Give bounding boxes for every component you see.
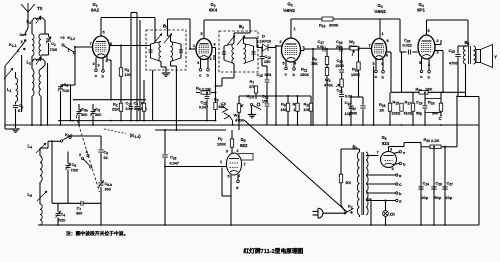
wire y203 xyxy=(52,202,101,204)
pins bottom G1 xyxy=(93,54,112,100)
svg-text:R18: R18 xyxy=(428,100,435,106)
resistor R9 75K xyxy=(311,48,329,66)
svg-text:1M: 1M xyxy=(281,108,286,112)
svg-text:K1-2: K1-2 xyxy=(68,35,76,41)
bottom bus xyxy=(38,224,479,226)
transformer B3 xyxy=(353,145,369,216)
svg-text:C20: C20 xyxy=(404,38,411,44)
svg-text:410Ω: 410Ω xyxy=(404,112,413,116)
wire xyxy=(262,65,267,67)
wire x363 col xyxy=(0,0,1,1)
svg-text:7: 7 xyxy=(244,163,246,167)
tap C xyxy=(439,111,442,121)
wire B3 primary top xyxy=(341,149,360,174)
capacitor C22 2200 xyxy=(336,58,345,79)
svg-text:1: 1 xyxy=(220,160,222,164)
svg-text:470K: 470K xyxy=(324,84,333,88)
svg-text:7/10: 7/10 xyxy=(62,89,69,93)
capacitor C16 0.047 xyxy=(162,130,179,225)
resistor R7 100K xyxy=(217,130,234,154)
svg-text:2K: 2K xyxy=(380,109,385,113)
wire G1 plate rail xyxy=(101,17,155,19)
wire B2 pri top xyxy=(234,33,250,44)
capacitor C26 50u xyxy=(431,181,442,201)
ground xyxy=(162,73,170,76)
tube G3 half 6N2 xyxy=(282,2,301,63)
svg-text:7/20: 7/20 xyxy=(50,47,59,52)
pin 1 top xyxy=(291,19,296,38)
ground xyxy=(248,106,256,118)
vertical pair mid xyxy=(131,13,137,100)
wire x327 down xyxy=(326,76,328,126)
wire det to W1 xyxy=(239,95,311,97)
svg-text:R9: R9 xyxy=(312,56,317,62)
pot W2 470K xyxy=(349,39,373,56)
svg-text:W2: W2 xyxy=(349,39,355,45)
svg-text:R17: R17 xyxy=(405,100,412,106)
capacitor C22 1000 xyxy=(349,97,366,125)
svg-text:470K: 470K xyxy=(235,119,244,123)
rectifier pins xyxy=(377,143,407,172)
capacitor C21 0.01 xyxy=(337,89,353,126)
trimmer C2 xyxy=(45,34,58,55)
capacitor C19 50u xyxy=(416,92,427,125)
capacitor C25 4700 xyxy=(449,46,466,97)
pin 5 top xyxy=(101,18,105,37)
svg-text:R16: R16 xyxy=(379,102,386,108)
svg-text:360: 360 xyxy=(95,113,101,117)
wire xyxy=(0,0,1,1)
resistor R19 18K xyxy=(416,87,433,95)
svg-text:B4: B4 xyxy=(465,40,470,46)
pin 6 xyxy=(212,43,216,93)
main mid bus y125 xyxy=(5,124,479,126)
svg-text:C18: C18 xyxy=(336,39,343,45)
switch K2 xyxy=(344,204,354,215)
resistor R18 300 xyxy=(425,92,443,115)
svg-text:C27: C27 xyxy=(447,181,454,187)
svg-text:7: 7 xyxy=(90,42,92,46)
svg-text:5: 5 xyxy=(103,31,105,35)
svg-text:3: 3 xyxy=(390,148,392,152)
capacitor C19 0.01 xyxy=(126,100,134,121)
wire T2 right top xyxy=(41,65,45,69)
plug xyxy=(313,208,345,218)
svg-text:5: 5 xyxy=(201,32,203,36)
svg-text:注：图中波段开关位于中波。: 注：图中波段开关位于中波。 xyxy=(66,230,128,237)
svg-text:7: 7 xyxy=(377,151,379,155)
svg-text:R11: R11 xyxy=(301,67,307,73)
svg-text:R7: R7 xyxy=(218,136,223,142)
capacitor C17 0.01 xyxy=(317,39,325,52)
jack CX xyxy=(221,101,234,126)
svg-text:5: 5 xyxy=(419,61,421,65)
svg-text:2: 2 xyxy=(280,40,282,44)
heater stub o xyxy=(95,69,98,78)
wire right edge xyxy=(478,125,480,225)
wire filter v3 xyxy=(444,146,446,225)
coil L1 xyxy=(4,68,18,102)
IF transformer B2 xyxy=(219,24,258,72)
svg-text:R15: R15 xyxy=(393,100,400,106)
resistor R16 2K xyxy=(379,92,392,125)
svg-text:62: 62 xyxy=(104,156,108,160)
svg-text:C16: C16 xyxy=(170,155,177,161)
svg-text:0.047: 0.047 xyxy=(170,162,180,166)
svg-text:75K: 75K xyxy=(311,62,318,66)
pin 5 top xyxy=(427,20,430,35)
svg-text:5: 5 xyxy=(228,175,230,179)
heater stub b xyxy=(293,68,296,77)
resistor R2 22K xyxy=(112,100,123,121)
vertical x313 xyxy=(312,48,314,125)
pins bottom G3 xyxy=(283,61,298,67)
heater stub b xyxy=(428,70,431,79)
svg-text:8: 8 xyxy=(387,39,389,43)
resistor R14 300K xyxy=(319,17,339,28)
capacitor C6 62 xyxy=(99,150,109,171)
capacitor C27 20u xyxy=(442,181,453,201)
svg-text:K2: K2 xyxy=(348,204,353,210)
ground xyxy=(11,129,19,132)
pin 7 xyxy=(74,42,93,48)
pin 3 xyxy=(301,46,305,51)
capacitor C14 10u xyxy=(345,96,354,125)
svg-text:3: 3 xyxy=(437,51,439,55)
magic eye cathode loop xyxy=(222,168,231,226)
svg-text:C: C xyxy=(399,182,402,187)
pins bottom G4 xyxy=(373,59,385,70)
resistor R10 10K xyxy=(304,96,313,125)
wire osc top xyxy=(0,0,1,1)
svg-text:W1: W1 xyxy=(234,113,240,119)
fuse BX xyxy=(339,174,351,211)
svg-text:20μ: 20μ xyxy=(446,196,453,200)
wire B3 sec bottom xyxy=(0,0,1,1)
svg-text:红灯牌711-2型电原理图: 红灯牌711-2型电原理图 xyxy=(244,247,304,255)
svg-text:G6: G6 xyxy=(381,135,386,141)
wire K2 to B3 xyxy=(0,0,1,1)
pin 2 xyxy=(434,39,441,45)
switch K1-3 xyxy=(60,133,72,142)
wire B2 pri bottom xyxy=(222,64,234,79)
wire x373 xyxy=(373,66,375,125)
pins bottom G2 xyxy=(197,55,214,68)
heater stub b xyxy=(382,70,385,79)
wire G2 plate rail xyxy=(204,20,250,33)
wire rail drop to B1 xyxy=(154,18,156,43)
svg-text:L1: L1 xyxy=(7,87,12,93)
svg-text:2: 2 xyxy=(437,39,439,43)
svg-text:1000: 1000 xyxy=(349,112,357,116)
switch K1-5 xyxy=(247,95,262,110)
svg-text:50μ: 50μ xyxy=(435,196,442,200)
transformer taps xyxy=(366,156,402,204)
svg-text:ZD: ZD xyxy=(390,212,395,217)
svg-text:+3: +3 xyxy=(60,35,65,40)
svg-text:C26: C26 xyxy=(436,181,443,187)
pins bottom G5 xyxy=(419,58,431,70)
wire sec jog xyxy=(366,199,371,225)
note text xyxy=(66,230,128,237)
wire diode in xyxy=(0,0,1,1)
pot W3 470K xyxy=(324,77,343,94)
svg-text:6Z4: 6Z4 xyxy=(382,141,390,146)
wire filter v1 xyxy=(420,147,422,225)
tube G2 6K4 xyxy=(196,2,218,60)
svg-text:1: 1 xyxy=(68,49,70,53)
svg-text:C24: C24 xyxy=(423,181,430,187)
gang capacitor C8-a 360 xyxy=(76,104,101,125)
svg-text:3a: 3a xyxy=(20,32,25,37)
wire B2 left drop xyxy=(215,78,223,87)
svg-text:6P1: 6P1 xyxy=(417,8,425,13)
capacitor C18 200 xyxy=(336,39,343,52)
svg-text:C22: C22 xyxy=(337,58,344,64)
svg-text:W3: W3 xyxy=(325,77,331,83)
svg-text:5: 5 xyxy=(373,62,375,66)
wire K1-3 xyxy=(48,136,101,149)
svg-text:7/20: 7/20 xyxy=(58,219,65,223)
svg-text:5: 5 xyxy=(428,29,430,33)
svg-text:100K: 100K xyxy=(217,143,226,147)
tube G1 6A2 xyxy=(91,2,110,58)
svg-text:7/30: 7/30 xyxy=(71,169,78,173)
wire grid row xyxy=(304,48,350,50)
capacitor C13 150 xyxy=(262,92,269,125)
rail y92 xyxy=(391,91,466,93)
transformer T1 xyxy=(32,34,45,56)
wire speaker xyxy=(0,0,1,1)
capacitor C10 150 xyxy=(260,47,272,67)
svg-text:360: 360 xyxy=(105,188,111,192)
rail AGC y99 xyxy=(73,99,146,101)
capacitor C20 0.022 xyxy=(400,38,418,55)
resistor R20 2.2K xyxy=(421,137,457,149)
svg-text:D: D xyxy=(262,34,265,39)
svg-text:G3: G3 xyxy=(287,2,292,8)
svg-text:22K: 22K xyxy=(112,108,119,112)
wire xyxy=(41,55,49,60)
svg-text:C3: C3 xyxy=(64,82,69,88)
svg-text:C17: C17 xyxy=(318,39,325,45)
heater stub b xyxy=(102,70,105,79)
switch K1-2 xyxy=(60,35,75,54)
svg-text:3: 3 xyxy=(98,64,100,68)
resistor R7 47K xyxy=(249,80,258,93)
pin 6 xyxy=(110,42,151,46)
switch K1-4b xyxy=(79,150,92,168)
svg-text:L4: L4 xyxy=(28,144,33,150)
svg-text:2200: 2200 xyxy=(336,64,344,68)
svg-text:6K4: 6K4 xyxy=(209,8,218,13)
svg-text:B2: B2 xyxy=(239,24,244,30)
svg-text:G5: G5 xyxy=(241,137,246,143)
svg-text:C5: C5 xyxy=(72,162,77,168)
svg-text:L2: L2 xyxy=(27,60,32,66)
resistor R6 1M xyxy=(281,96,290,125)
coil L5 adj xyxy=(28,191,48,201)
svg-text:C19: C19 xyxy=(416,100,423,106)
tube G6 magic eye 6E2 xyxy=(226,137,248,175)
svg-text:C6: C6 xyxy=(104,150,109,156)
resistor R8 68K xyxy=(214,93,226,121)
svg-text:R6: R6 xyxy=(281,102,286,108)
tube G4 half 6N2 xyxy=(372,3,387,60)
resistor R12 100K xyxy=(351,47,360,97)
svg-text:6E2: 6E2 xyxy=(240,143,248,148)
resistor R7b 1K xyxy=(293,96,300,125)
svg-text:½6N2: ½6N2 xyxy=(283,8,295,13)
wire xyxy=(32,56,45,69)
wire y97 jog xyxy=(351,96,359,98)
wire xyxy=(21,55,23,112)
wire B1 left drop xyxy=(152,70,154,121)
svg-text:R14: R14 xyxy=(319,23,326,29)
link wire W1 to K2 xyxy=(244,120,347,212)
magic eye target loop xyxy=(238,154,253,161)
switch K1-1 xyxy=(9,32,26,53)
svg-text:C2: C2 xyxy=(51,41,56,47)
svg-text:BX: BX xyxy=(346,180,352,185)
coil L4 adj xyxy=(28,143,47,153)
wire K1-5 stub xyxy=(255,93,257,99)
diode D 2AP16 xyxy=(257,34,276,126)
lamp ZD xyxy=(383,200,395,226)
wire B3 primary bottom xyxy=(359,215,361,217)
svg-text:CX: CX xyxy=(221,101,227,106)
resistor R15 230 xyxy=(392,100,404,116)
tube G7 rectifier 6Z4 xyxy=(381,135,397,168)
svg-text:0.01: 0.01 xyxy=(265,73,272,77)
trimmer C5 7/30 xyxy=(65,152,77,204)
svg-text:6: 6 xyxy=(386,54,388,58)
wire K4b xyxy=(0,0,1,1)
wire B+ to R20 xyxy=(404,143,421,147)
svg-text:67: 67 xyxy=(18,108,23,113)
svg-text:G3: G3 xyxy=(377,3,382,9)
label K1-4 dashed pointer xyxy=(104,129,143,140)
svg-text:K1-1: K1-1 xyxy=(9,42,17,48)
pin 7 grid xyxy=(369,44,373,48)
svg-text:TX: TX xyxy=(37,6,43,11)
pin 5 top xyxy=(201,20,205,39)
svg-text:6: 6 xyxy=(214,43,216,47)
title text xyxy=(244,247,304,255)
wire K1-2 down xyxy=(70,47,75,122)
resistor R17 410 xyxy=(404,92,415,125)
svg-text:C25: C25 xyxy=(449,48,456,54)
svg-text:2: 2 xyxy=(237,149,239,153)
pin labels magic eye xyxy=(220,149,246,179)
stub d xyxy=(236,175,239,191)
capacitor C7 360 xyxy=(76,201,83,216)
svg-text:L3: L3 xyxy=(27,19,32,25)
svg-text:Y: Y xyxy=(494,55,497,60)
osc coil lower xyxy=(40,182,42,225)
wire eye left xyxy=(164,166,227,168)
wire B+ right column xyxy=(456,96,458,147)
plate rail G3-G4 xyxy=(291,18,400,20)
capacitor C1 67 xyxy=(13,102,23,128)
wire xyxy=(32,20,45,34)
speaker Y xyxy=(476,45,497,68)
svg-text:150: 150 xyxy=(264,60,270,64)
resistor R5 100 xyxy=(119,45,132,101)
svg-text:360: 360 xyxy=(81,113,87,117)
wire B2 sec top xyxy=(244,38,258,48)
wire y151 xyxy=(0,0,1,1)
wire x47 xyxy=(47,63,49,126)
pot W1 470K xyxy=(234,96,245,130)
wire G5 plate rail xyxy=(427,20,469,46)
wire B1 pri bottom xyxy=(161,62,166,73)
vertical x341 xyxy=(341,48,343,69)
svg-text:9: 9 xyxy=(226,150,228,154)
wire osc right column xyxy=(51,141,53,203)
pin 3 screen xyxy=(435,51,444,93)
osc coil upper xyxy=(40,148,48,182)
transformer B4 xyxy=(464,40,476,97)
gang capacitor C8-b 360 xyxy=(98,170,112,225)
svg-text:2AP16: 2AP16 xyxy=(260,40,272,44)
wire xyxy=(15,96,43,126)
wire filter v2 xyxy=(433,146,435,225)
heater stub o xyxy=(199,69,202,78)
antenna xyxy=(21,3,43,33)
coil L3 xyxy=(27,16,45,25)
heater stub o xyxy=(420,70,423,79)
wire y96 right xyxy=(458,96,479,125)
capacitor C4 10u xyxy=(134,100,141,121)
svg-text:L5: L5 xyxy=(28,192,33,198)
svg-text:½6N2: ½6N2 xyxy=(374,9,386,14)
resistor R4 2.2M xyxy=(196,86,217,95)
svg-text:230Ω: 230Ω xyxy=(392,112,401,116)
svg-text:C7: C7 xyxy=(77,206,82,212)
wire B1 sec top loop xyxy=(168,19,191,49)
wire G4 cathode xyxy=(390,52,392,92)
svg-text:1: 1 xyxy=(382,32,384,36)
svg-text:2: 2 xyxy=(210,57,212,61)
svg-text:30μ: 30μ xyxy=(422,196,429,200)
pin 8 xyxy=(386,39,391,58)
capacitor C11 0.047 xyxy=(199,92,209,121)
pin top xyxy=(380,19,384,39)
trimmer C4 7/20 xyxy=(55,203,65,225)
rail y120 segment xyxy=(58,120,216,122)
svg-text:360: 360 xyxy=(76,212,82,216)
heater stub b xyxy=(207,69,210,78)
trimmer C3 7/10 xyxy=(58,82,71,126)
capacitor C15 0.01 xyxy=(257,66,272,92)
wire rail drop x400 xyxy=(399,19,401,52)
svg-text:4700: 4700 xyxy=(449,62,457,66)
pin 2 grid xyxy=(275,40,282,47)
svg-text:1: 1 xyxy=(193,44,195,48)
resistor R3 30K xyxy=(141,80,148,121)
svg-text:R2: R2 xyxy=(113,102,118,108)
svg-text:R20 2.2K: R20 2.2K xyxy=(424,137,440,143)
wire cluster bottom xyxy=(0,0,1,1)
svg-text:C22: C22 xyxy=(350,105,357,111)
svg-text:C: C xyxy=(439,116,442,121)
svg-text:1: 1 xyxy=(294,27,296,31)
svg-text:150K: 150K xyxy=(300,73,309,77)
svg-text:0.022: 0.022 xyxy=(403,44,413,48)
svg-text:5: 5 xyxy=(283,62,285,66)
transformer T2 xyxy=(32,69,41,96)
